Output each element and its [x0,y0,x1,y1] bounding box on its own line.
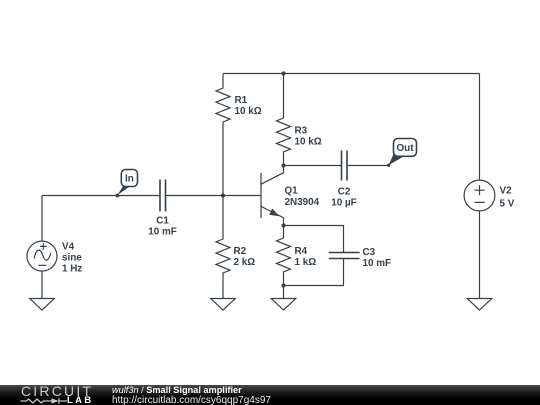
wire collector to C2 [284,165,342,167]
ground under R4 [271,299,296,311]
svg-text:Q1: Q1 [285,186,299,197]
node junction collector/R3/C2 [281,163,285,167]
svg-text:10 mF: 10 mF [363,258,392,269]
footer url [112,396,271,405]
svg-text:R2: R2 [234,246,247,257]
capacitor C2 [331,151,356,209]
capacitor C3 [329,247,391,269]
wire V4 bottom lead [41,271,43,298]
node junction emitter/R4/C3 [281,223,285,227]
resistor R1 [216,74,262,196]
wire C2 to Out [347,165,388,167]
node junction R1/R2/input [221,193,225,197]
voltage source V4 (sine) [27,241,82,274]
svg-text:2N3904: 2N3904 [285,197,320,208]
wire top rail [223,73,480,75]
svg-text:R4: R4 [295,246,308,257]
node label Out [387,139,417,167]
wire V4 top lead [41,196,43,242]
svg-text:V2: V2 [500,186,513,197]
svg-text:10 kΩ: 10 kΩ [295,137,322,148]
svg-text:In: In [125,174,134,185]
svg-text:2 kΩ: 2 kΩ [234,257,256,268]
wire R4 to ground [283,286,285,299]
CircuitLab logo CIRCUIT [21,384,93,398]
svg-text:1 Hz: 1 Hz [62,264,82,275]
voltage source V2 [464,180,515,211]
svg-text:5 V: 5 V [500,198,515,209]
transistor Q1 [261,166,320,226]
wire V2 bottom lead [479,211,481,299]
svg-text:C3: C3 [363,247,376,258]
ground under V4 [30,299,55,311]
svg-text:10 mF: 10 mF [148,227,177,238]
resistor R2 [216,196,255,299]
wire R4 bottom to C3 bottom [284,259,344,286]
svg-text:1 kΩ: 1 kΩ [295,257,317,268]
footer bar [0,385,540,405]
svg-text:Out: Out [396,143,414,154]
node junction R4 bottom / C3 bottom [281,283,285,287]
ground under V2 [467,299,492,311]
svg-text:C1: C1 [156,215,169,226]
node label In [116,170,138,198]
capacitor C1 [148,180,177,238]
svg-text:V4: V4 [62,242,75,253]
svg-text:10 µF: 10 µF [331,198,356,209]
CircuitLab logo LAB [67,396,93,405]
resistor R4 [277,226,317,286]
node junction top rail / R3 [281,71,285,75]
svg-text:C2: C2 [338,187,351,198]
svg-text:sine: sine [62,253,82,264]
ground under R2 [211,299,236,311]
wire C1 to base [166,195,262,197]
svg-text:R1: R1 [235,95,248,106]
CircuitLab logo doodle (resistor + diode) [20,397,68,405]
footer title [112,385,242,396]
svg-text:10 kΩ: 10 kΩ [235,106,262,117]
svg-text:R3: R3 [295,125,308,136]
wire V2 top lead [479,74,481,181]
wire emitter node to C3 top [284,226,344,253]
wire input from V4 to C1 [42,195,160,197]
resistor R3 [277,74,322,166]
